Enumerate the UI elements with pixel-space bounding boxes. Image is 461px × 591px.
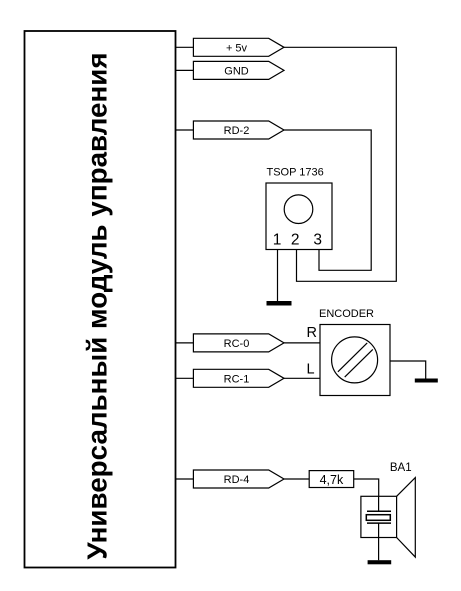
net tag GND [193, 61, 284, 79]
svg-text:RC-1: RC-1 [224, 373, 250, 385]
wire +5v net to TSOP pin 2 [283, 47, 396, 281]
piezo top plate [367, 510, 391, 512]
net tag RD-2 [193, 121, 284, 139]
wire box to RC-1 tag [176, 377, 194, 379]
net tag RD-4 [193, 470, 284, 488]
IR receiver TSOP 1736 [266, 166, 332, 249]
resistor 4,7k [309, 471, 354, 488]
svg-text:R: R [307, 325, 317, 341]
wire box to RC-0 tag [176, 342, 194, 344]
wire encoder to ground [390, 361, 426, 379]
svg-text:TSOP 1736: TSOP 1736 [267, 166, 324, 178]
wire RD-4 tag to resistor [284, 478, 309, 480]
svg-text:3: 3 [313, 232, 322, 249]
wire resistor to speaker [354, 479, 379, 496]
svg-text:RD-2: RD-2 [224, 125, 250, 137]
module box Универсальный модуль управления [25, 31, 176, 568]
svg-text:2: 2 [291, 232, 300, 249]
svg-text:BA1: BA1 [390, 462, 412, 474]
wire box to RD-2 tag [176, 129, 194, 131]
net tag RC-0 [193, 334, 284, 352]
svg-text:Универсальный модуль управлени: Универсальный модуль управления [81, 52, 112, 559]
svg-text:RD-4: RD-4 [224, 474, 250, 486]
wire RC-0 tag to encoder R input [284, 342, 320, 344]
piezo bottom plate [367, 522, 391, 524]
wire speaker to ground [378, 538, 380, 561]
wire box to GND tag [176, 69, 194, 71]
wire RD-2 net to TSOP pin 3 [284, 130, 371, 270]
speaker BA1 [361, 462, 415, 557]
svg-text:ENCODER: ENCODER [319, 308, 374, 320]
wire to piezo top plate [378, 496, 380, 511]
wire RC-1 tag to encoder L input [284, 377, 320, 379]
net tag +5v [193, 38, 284, 56]
ground at speaker [368, 560, 392, 564]
wire TSOP pin 1 to ground [277, 250, 279, 302]
encoder [307, 308, 391, 396]
svg-text:1: 1 [273, 232, 282, 249]
svg-text:L: L [307, 362, 315, 378]
wire box to RD-4 tag [176, 478, 194, 480]
piezo crystal [366, 515, 390, 521]
svg-text:4,7k: 4,7k [320, 473, 344, 487]
ground at TSOP pin 1 [267, 301, 292, 306]
net tag RC-1 [193, 369, 284, 387]
speaker horn [397, 478, 416, 557]
svg-text:RC-0: RC-0 [224, 338, 250, 350]
wire from piezo bottom plate [378, 523, 380, 537]
svg-text:+ 5v: + 5v [226, 42, 248, 54]
svg-text:GND: GND [224, 65, 249, 77]
wire box to +5v tag [176, 46, 194, 48]
ground at encoder [415, 379, 438, 383]
